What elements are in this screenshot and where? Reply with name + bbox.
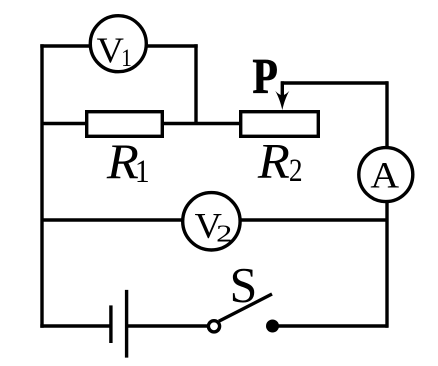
svg-text:R: R [257,133,290,188]
wire slider P horizontal to right corner [281,81,388,84]
wire V1 right to corner [145,44,198,47]
wire top-left horizontal (left rail to V1) [40,44,90,47]
wire vertical from V1 corner down to R1-R2 lead [194,44,197,124]
switch S pivot circle [208,321,219,332]
rheostat R2 [241,112,319,137]
voltmeter V1 [90,16,146,72]
wire ammeter bottom down to bottom rail [385,201,388,328]
battery cell long plate [125,290,128,358]
label R2 [257,133,303,188]
resistor R1 [87,112,163,137]
wire battery to switch [127,324,208,327]
svg-text:2: 2 [289,153,303,189]
voltmeter V2 [183,193,240,250]
svg-text:V: V [97,30,125,70]
switch S contact dot [266,320,279,333]
switch S lever [219,294,272,321]
slider arrow of R2 [275,81,289,110]
wire switch dot to right rail [278,324,388,327]
svg-text:2: 2 [216,221,232,248]
wire left rail to R1 [42,122,87,125]
svg-text:S: S [230,256,258,312]
label R1 [106,134,150,190]
wire R1 to R2 lead [162,122,242,125]
svg-text:A: A [370,155,399,196]
ammeter A [359,148,413,202]
wire left vertical rail [40,44,43,327]
svg-text:1: 1 [121,43,132,72]
svg-text:P: P [253,48,278,104]
wire bottom-left rail to battery [40,324,111,327]
battery cell short plate [109,305,112,343]
svg-text:1: 1 [135,154,150,190]
wire left rail to V2 [42,218,184,221]
wire V2 to right rail [239,218,388,221]
wire vertical corner down to ammeter top [385,81,388,148]
